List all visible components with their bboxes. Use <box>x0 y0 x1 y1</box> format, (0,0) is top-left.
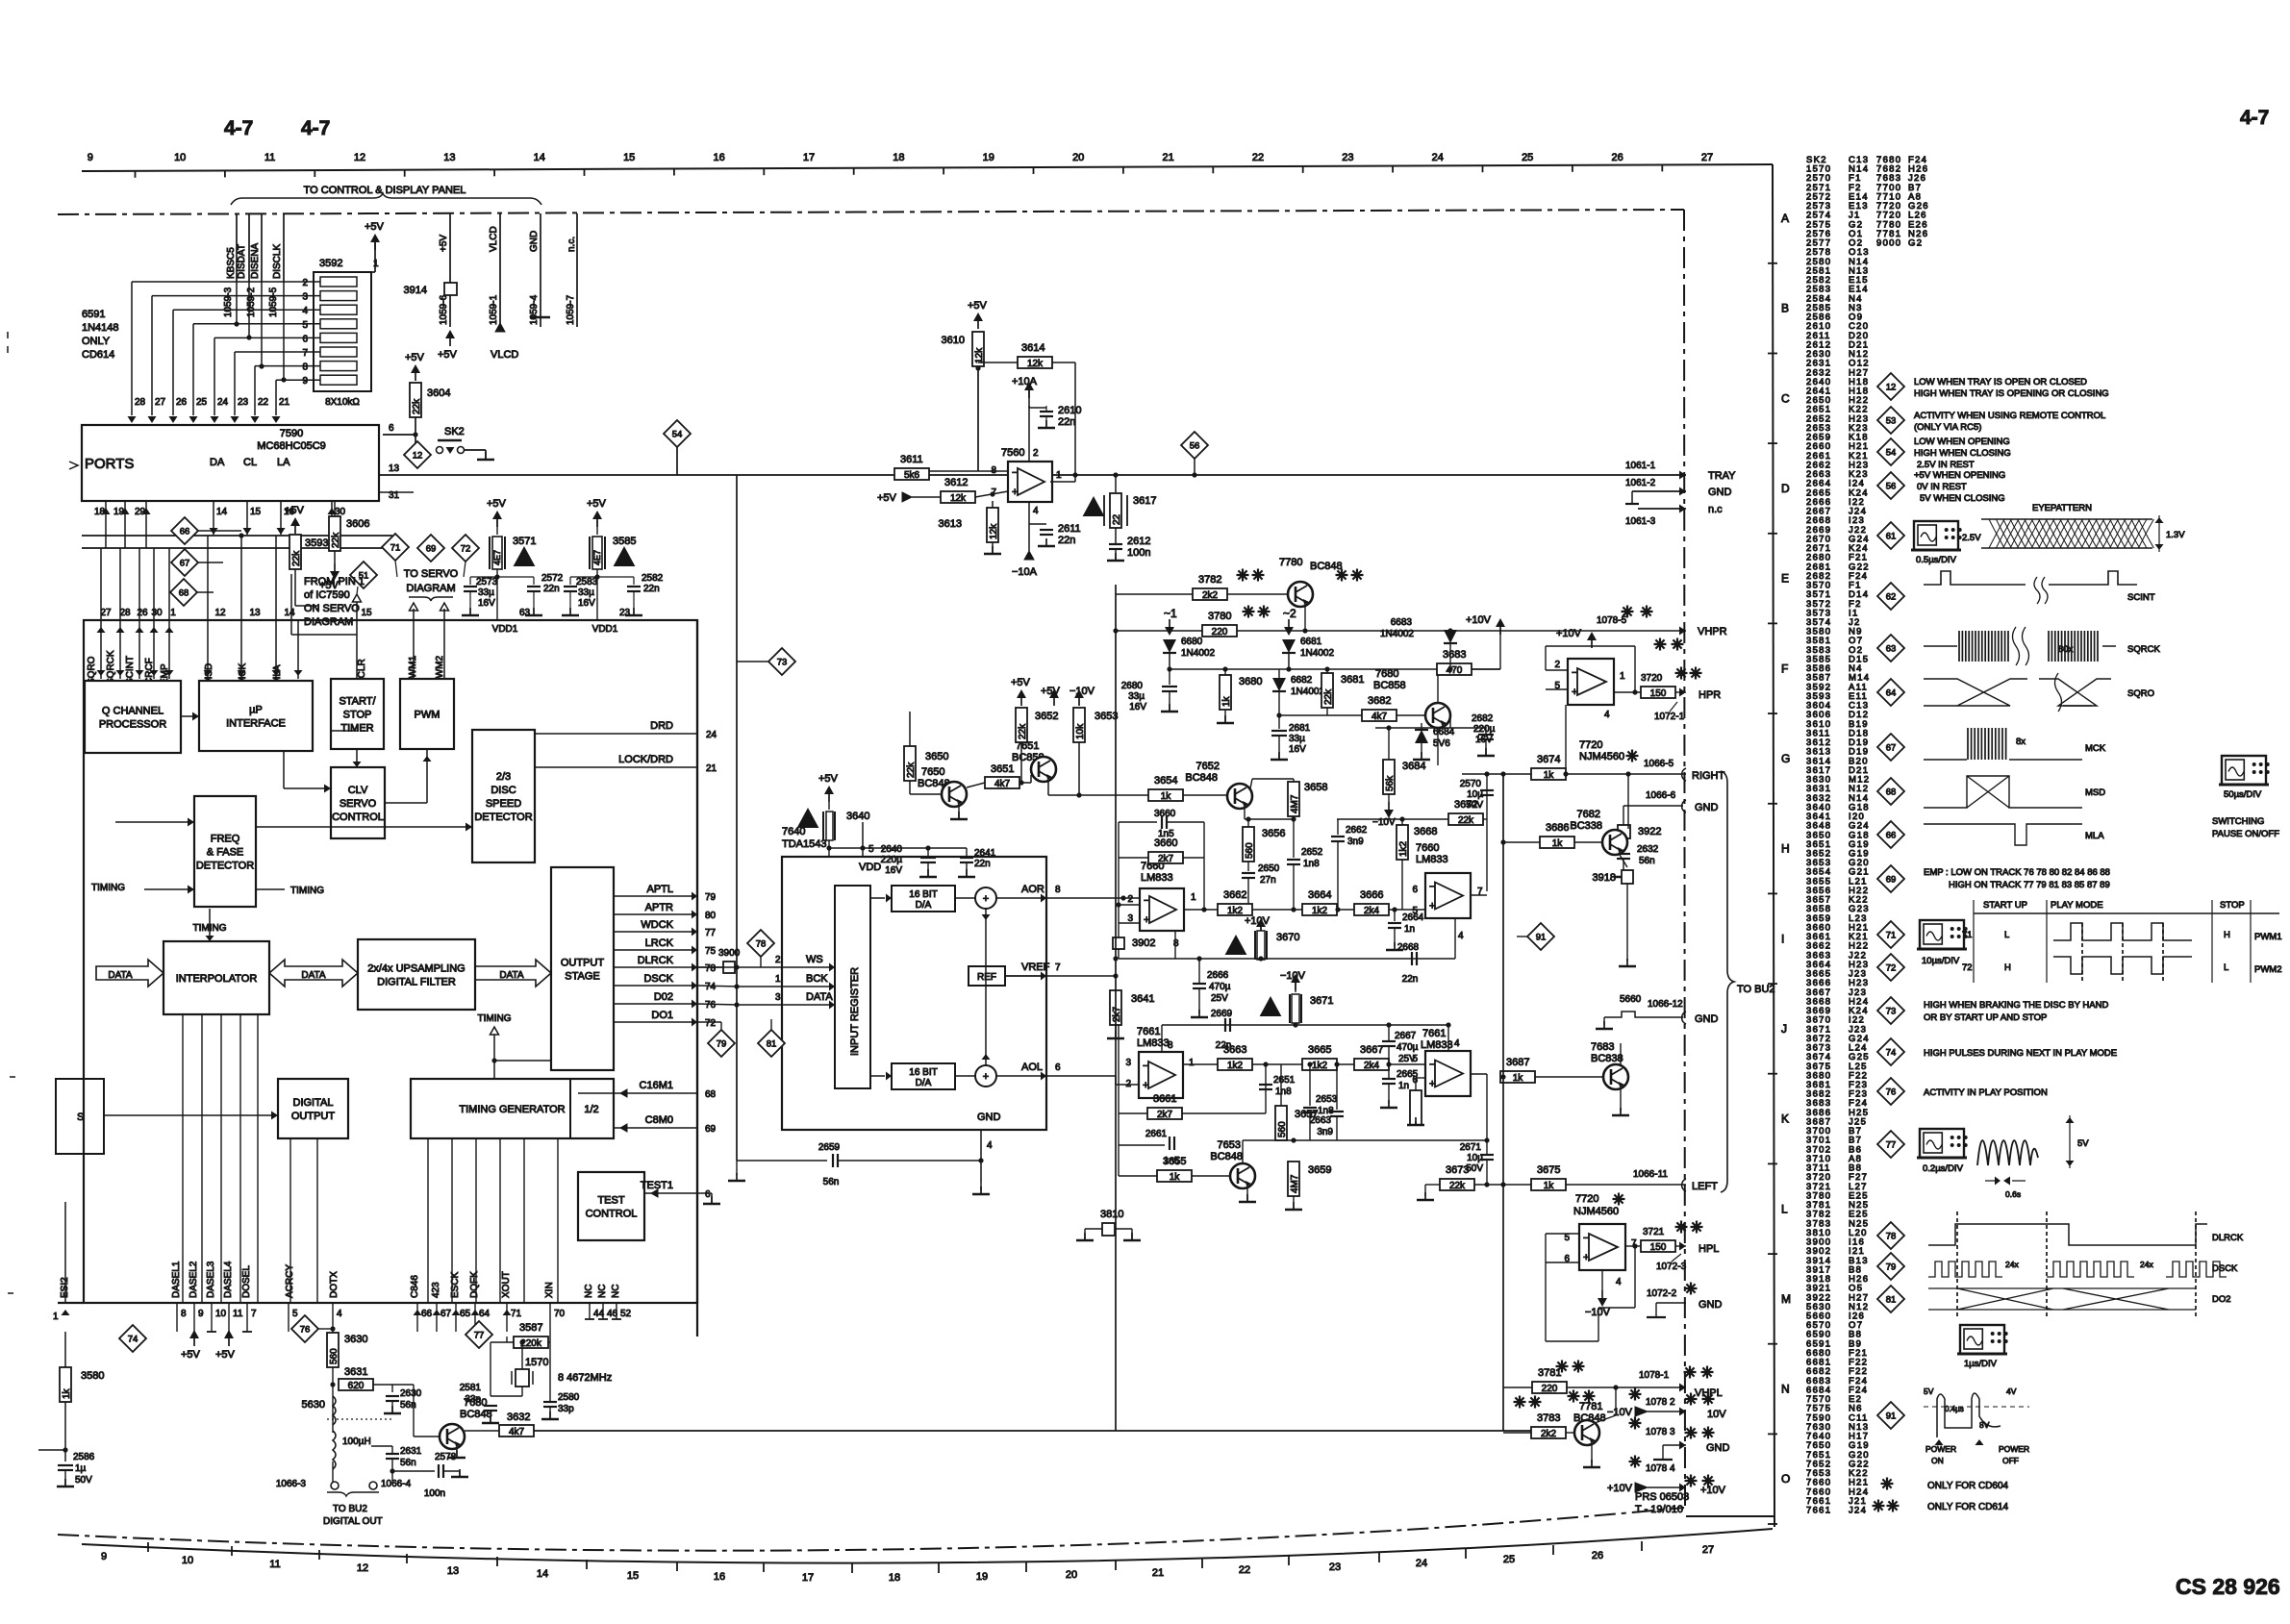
svg-text:19: 19 <box>113 507 125 517</box>
svg-text:+: + <box>1572 687 1577 698</box>
svg-text:+10V: +10V <box>1607 1483 1633 1494</box>
svg-text:28: 28 <box>135 397 146 408</box>
svg-text:CS 28 926: CS 28 926 <box>2176 1574 2280 1599</box>
svg-text:VLCD: VLCD <box>491 349 518 361</box>
svg-text:25: 25 <box>196 397 208 408</box>
svg-text:WS: WS <box>806 954 823 965</box>
svg-text:C8M0: C8M0 <box>645 1114 673 1126</box>
svg-text:7: 7 <box>302 348 308 359</box>
svg-text:25: 25 <box>1503 1554 1515 1565</box>
svg-text:19: 19 <box>976 1571 988 1583</box>
svg-text:10µs/DIV: 10µs/DIV <box>1922 956 1960 966</box>
svg-text:3662: 3662 <box>1223 889 1246 901</box>
svg-text:2: 2 <box>1033 448 1039 459</box>
svg-text:7720: 7720 <box>1579 739 1602 751</box>
svg-text:560: 560 <box>329 1348 340 1364</box>
svg-text:4k7: 4k7 <box>509 1427 525 1437</box>
svg-text:REF: REF <box>977 972 996 983</box>
svg-text:+5V: +5V <box>877 492 897 504</box>
svg-text:3612: 3612 <box>944 477 968 488</box>
svg-text:24: 24 <box>1432 152 1444 163</box>
svg-text:TO CONTROL & DISPLAY PANEL: TO CONTROL & DISPLAY PANEL <box>304 185 466 196</box>
svg-text:22k: 22k <box>291 550 302 566</box>
svg-text:1059-3: 1059-3 <box>223 287 234 317</box>
svg-text:ACTIVITY IN PLAY POSITION: ACTIVITY IN PLAY POSITION <box>1924 1087 2048 1098</box>
svg-text:SCINT: SCINT <box>2127 592 2155 603</box>
svg-text:22n: 22n <box>1058 416 1075 428</box>
svg-text:GND: GND <box>529 231 540 252</box>
svg-text:DIGITAL FILTER: DIGITAL FILTER <box>377 977 456 988</box>
svg-text:1066-5: 1066-5 <box>1644 759 1674 769</box>
svg-text:GND: GND <box>1706 1442 1730 1454</box>
svg-text:+: + <box>1012 487 1018 498</box>
svg-text:10k: 10k <box>1075 723 1086 739</box>
svg-text:DA: DA <box>210 457 225 468</box>
svg-text:2652: 2652 <box>1301 847 1323 858</box>
svg-text:PROCESSOR: PROCESSOR <box>99 719 166 731</box>
svg-text:I: I <box>1781 932 1784 945</box>
svg-text:MLA: MLA <box>2085 831 2104 841</box>
svg-text:56n: 56n <box>400 1458 416 1468</box>
svg-text:PRS 06503: PRS 06503 <box>1635 1491 1689 1503</box>
svg-text:OR BY START UP AND STOP: OR BY START UP AND STOP <box>1924 1012 2047 1023</box>
svg-text:D: D <box>1781 482 1790 495</box>
svg-text:16V: 16V <box>1289 744 1306 755</box>
svg-text:3661: 3661 <box>1153 1093 1176 1105</box>
svg-text:27: 27 <box>1702 1544 1714 1556</box>
svg-text:23: 23 <box>1329 1562 1341 1573</box>
svg-text:62: 62 <box>1886 592 1897 603</box>
svg-text:71: 71 <box>1962 930 1973 940</box>
svg-text:81: 81 <box>1886 1295 1897 1306</box>
svg-text:HIGH WHEN BRAKING THE DISC BY: HIGH WHEN BRAKING THE DISC BY HAND <box>1924 1000 2108 1011</box>
svg-text:66: 66 <box>180 527 190 537</box>
svg-text:3681: 3681 <box>1341 674 1364 686</box>
svg-text:9: 9 <box>198 1309 204 1319</box>
svg-text:1N4002: 1N4002 <box>1181 648 1215 659</box>
svg-text:2580: 2580 <box>558 1392 580 1403</box>
svg-text:DATA: DATA <box>499 970 524 981</box>
svg-text:22k: 22k <box>1323 688 1334 705</box>
svg-text:2653: 2653 <box>1316 1094 1338 1105</box>
svg-text:LEFT: LEFT <box>1692 1181 1718 1192</box>
svg-text:12: 12 <box>354 152 365 163</box>
svg-text:+5V: +5V <box>818 773 839 785</box>
svg-text:MSD: MSD <box>2085 787 2105 798</box>
svg-text:1072-3: 1072-3 <box>1656 1262 1687 1272</box>
svg-text:1066-6: 1066-6 <box>1646 790 1676 801</box>
svg-text:+10V: +10V <box>1466 614 1492 626</box>
svg-text:79: 79 <box>705 892 717 903</box>
svg-text:LM833: LM833 <box>1137 1037 1170 1049</box>
svg-text:7683: 7683 <box>1591 1041 1614 1053</box>
svg-text:2662: 2662 <box>1346 825 1368 836</box>
svg-text:1066-11: 1066-11 <box>1633 1169 1668 1180</box>
svg-text:71: 71 <box>511 1309 522 1319</box>
svg-text:22k: 22k <box>906 762 917 778</box>
svg-text:2x/4x UPSAMPLING: 2x/4x UPSAMPLING <box>367 963 465 975</box>
svg-text:!: ! <box>622 553 626 567</box>
svg-text:!: ! <box>1092 503 1095 517</box>
svg-text:15: 15 <box>623 152 635 163</box>
svg-text:1078-5: 1078-5 <box>1597 615 1627 626</box>
svg-text:2666: 2666 <box>1207 970 1229 981</box>
svg-text:150: 150 <box>1650 1242 1667 1253</box>
svg-text:22: 22 <box>1239 1564 1250 1576</box>
svg-text:TDA1543: TDA1543 <box>782 838 826 850</box>
svg-text:52: 52 <box>620 1309 632 1319</box>
svg-text:28: 28 <box>119 608 131 618</box>
svg-text:10V: 10V <box>1707 1409 1726 1420</box>
svg-text:2630: 2630 <box>400 1388 422 1399</box>
svg-text:2671: 2671 <box>1460 1142 1482 1153</box>
svg-text:+5V: +5V <box>968 300 988 312</box>
svg-text:220µ: 220µ <box>881 855 903 865</box>
svg-text:3641: 3641 <box>1131 993 1154 1005</box>
svg-text:1066-4: 1066-4 <box>381 1479 412 1489</box>
svg-text:TIMING: TIMING <box>290 886 324 896</box>
svg-text:16V: 16V <box>885 865 902 876</box>
svg-text:CONTROL: CONTROL <box>332 812 384 823</box>
svg-text:3652: 3652 <box>1035 711 1058 722</box>
svg-text:1n8: 1n8 <box>1303 859 1320 869</box>
svg-text:2659: 2659 <box>818 1142 841 1153</box>
svg-text:3592: 3592 <box>319 258 342 269</box>
svg-text:66: 66 <box>421 1309 433 1319</box>
svg-text:1061-3: 1061-3 <box>1625 516 1656 527</box>
svg-text:5: 5 <box>302 320 308 331</box>
svg-text:MC68HC05C9: MC68HC05C9 <box>257 440 326 452</box>
svg-text:GND: GND <box>1695 802 1719 813</box>
svg-text:H: H <box>2224 930 2230 940</box>
svg-text:73: 73 <box>777 658 788 668</box>
svg-text:3656: 3656 <box>1262 828 1285 839</box>
svg-text:(ONLY VIA RC5): (ONLY VIA RC5) <box>1914 422 1981 433</box>
svg-text:65: 65 <box>460 1309 471 1319</box>
svg-text:68: 68 <box>179 588 189 599</box>
svg-text:3: 3 <box>302 292 308 303</box>
svg-text:1k2: 1k2 <box>1312 906 1328 916</box>
svg-text:3640: 3640 <box>846 811 869 822</box>
svg-text:2586: 2586 <box>73 1452 95 1462</box>
svg-text:1N4148: 1N4148 <box>82 322 119 334</box>
svg-text:61: 61 <box>1886 532 1897 542</box>
svg-text:1: 1 <box>1620 671 1625 682</box>
svg-text:3721: 3721 <box>1643 1227 1665 1237</box>
svg-text:6: 6 <box>302 334 308 344</box>
svg-text:6: 6 <box>1412 885 1418 895</box>
svg-text:SQRCK: SQRCK <box>106 650 116 685</box>
svg-text:POWER: POWER <box>1999 1444 2029 1454</box>
svg-text:33µ: 33µ <box>578 587 594 598</box>
svg-text:!: ! <box>1234 941 1238 956</box>
svg-text:D/A: D/A <box>916 1078 932 1088</box>
svg-text:3720: 3720 <box>1641 673 1663 684</box>
svg-text:+5V: +5V <box>319 580 340 591</box>
svg-text:POWER: POWER <box>1925 1444 1956 1454</box>
svg-text:26: 26 <box>1592 1550 1603 1562</box>
svg-text:3659: 3659 <box>1308 1164 1331 1176</box>
svg-text:START UP: START UP <box>1983 900 2027 911</box>
svg-text:7661: 7661 <box>1422 1028 1446 1039</box>
svg-text:20: 20 <box>1072 152 1084 163</box>
svg-text:1k2: 1k2 <box>1312 1061 1328 1071</box>
svg-text:LA: LA <box>277 457 290 468</box>
svg-text:4-7: 4-7 <box>301 117 330 139</box>
svg-text:78: 78 <box>1886 1232 1897 1242</box>
svg-text:D/A: D/A <box>916 900 932 911</box>
svg-text:1059-5: 1059-5 <box>268 287 279 317</box>
svg-text:+5V: +5V <box>181 1349 201 1361</box>
svg-text:PWM2: PWM2 <box>2254 964 2282 975</box>
svg-text:1n: 1n <box>1404 924 1415 935</box>
svg-text:17: 17 <box>802 1572 814 1584</box>
svg-text:2641: 2641 <box>974 848 996 859</box>
svg-text:VHPR: VHPR <box>1698 626 1727 637</box>
svg-text:2573: 2573 <box>476 577 498 587</box>
svg-text:3631: 3631 <box>344 1366 367 1378</box>
svg-text:G2: G2 <box>1908 238 1923 249</box>
svg-text:XIN: XIN <box>544 1282 555 1298</box>
svg-text:DIAGRAM: DIAGRAM <box>304 616 353 628</box>
svg-text:2k7: 2k7 <box>1112 1006 1122 1022</box>
svg-text:3922: 3922 <box>1638 826 1661 837</box>
svg-text:21: 21 <box>706 763 717 774</box>
svg-text:EMP : LOW ON TRACK 76 78 80 82: EMP : LOW ON TRACK 76 78 80 82 84 86 88 <box>1924 867 2110 878</box>
svg-text:10: 10 <box>215 1309 227 1319</box>
svg-text:3613: 3613 <box>939 518 962 530</box>
svg-text:3686: 3686 <box>1546 822 1569 834</box>
svg-text:4: 4 <box>1454 1038 1460 1049</box>
svg-text:68: 68 <box>1886 787 1897 798</box>
svg-text:27n: 27n <box>1260 875 1276 886</box>
svg-text:80x: 80x <box>2058 644 2074 655</box>
svg-text:150: 150 <box>1650 688 1667 699</box>
svg-text:ON SERVO: ON SERVO <box>304 603 360 614</box>
svg-text:3900: 3900 <box>718 948 741 959</box>
svg-text:VDD1: VDD1 <box>492 624 518 635</box>
svg-text:71: 71 <box>1886 931 1897 941</box>
svg-text:56: 56 <box>1190 441 1200 452</box>
svg-text:SWITCHING: SWITCHING <box>2212 816 2264 827</box>
svg-text:ONLY: ONLY <box>82 336 111 347</box>
svg-text:DOSEL: DOSEL <box>241 1265 252 1298</box>
svg-text:H: H <box>1781 842 1790 856</box>
svg-text:18: 18 <box>94 507 106 517</box>
svg-text:2610: 2610 <box>1058 405 1081 416</box>
svg-text:22k: 22k <box>1449 1181 1466 1191</box>
svg-text:+10V: +10V <box>1700 1485 1726 1496</box>
svg-text:N: N <box>1781 1383 1790 1396</box>
svg-text:13: 13 <box>447 1565 459 1577</box>
svg-text:14: 14 <box>537 1568 548 1580</box>
svg-text:1061-2: 1061-2 <box>1625 478 1656 488</box>
svg-text:1n: 1n <box>1398 1081 1409 1091</box>
svg-text:NJM4560: NJM4560 <box>1573 1206 1619 1217</box>
svg-text:22k: 22k <box>331 532 341 548</box>
svg-text:APTL: APTL <box>646 884 673 895</box>
svg-text:3914: 3914 <box>404 285 427 296</box>
svg-text:7590: 7590 <box>280 428 303 439</box>
svg-text:−: − <box>1012 467 1018 479</box>
svg-text:4k7: 4k7 <box>994 779 1011 789</box>
svg-text:16V: 16V <box>1129 702 1146 712</box>
svg-text:12k: 12k <box>1027 359 1044 369</box>
svg-text:100n: 100n <box>424 1488 445 1499</box>
svg-text:72: 72 <box>705 1018 717 1029</box>
svg-text:DRD: DRD <box>650 720 673 732</box>
svg-text:26: 26 <box>176 397 188 408</box>
svg-text:53: 53 <box>1886 416 1897 427</box>
svg-text:4: 4 <box>987 1140 993 1151</box>
svg-text:25V: 25V <box>1398 1054 1416 1064</box>
svg-text:LM833: LM833 <box>1141 872 1173 884</box>
svg-text:3682: 3682 <box>1368 695 1391 707</box>
svg-text:µP: µP <box>249 705 263 716</box>
svg-text:1: 1 <box>1189 1058 1195 1068</box>
svg-text:3782: 3782 <box>1198 574 1221 586</box>
svg-text:50V: 50V <box>75 1475 92 1486</box>
svg-text:−: − <box>1572 667 1577 679</box>
svg-text:2k2: 2k2 <box>1202 590 1219 601</box>
svg-text:S: S <box>77 1112 84 1123</box>
svg-text:27: 27 <box>100 608 112 618</box>
svg-text:GND: GND <box>977 1112 1001 1123</box>
svg-text:77: 77 <box>474 1331 485 1341</box>
svg-text:DO2: DO2 <box>2212 1294 2231 1305</box>
svg-text:LOCK/DRD: LOCK/DRD <box>618 754 673 765</box>
svg-text:1k: 1k <box>1544 1181 1555 1191</box>
svg-text:!: ! <box>806 814 810 829</box>
svg-text:3664: 3664 <box>1308 889 1331 901</box>
svg-text:OFF: OFF <box>2002 1456 2019 1465</box>
svg-text:6: 6 <box>705 1189 711 1200</box>
svg-text:+: + <box>1429 901 1435 912</box>
svg-text:12k: 12k <box>950 493 967 504</box>
svg-text:1n8: 1n8 <box>1275 1087 1292 1097</box>
svg-text:VREF: VREF <box>1021 962 1050 973</box>
svg-text:−: − <box>1143 1061 1148 1072</box>
svg-text:4: 4 <box>1458 931 1464 941</box>
svg-text:LOW WHEN OPENING: LOW WHEN OPENING <box>1914 437 2010 447</box>
svg-text:J: J <box>1781 1022 1787 1036</box>
svg-text:WDCK: WDCK <box>641 919 673 931</box>
svg-text:+: + <box>1429 1079 1435 1090</box>
svg-text:19: 19 <box>983 152 994 163</box>
svg-text:16: 16 <box>713 152 724 163</box>
svg-text:5: 5 <box>292 1309 298 1319</box>
svg-text:2612: 2612 <box>1127 536 1150 547</box>
svg-text:−10V: −10V <box>1372 817 1396 828</box>
svg-text:AOR: AOR <box>1021 884 1044 895</box>
svg-text:3687: 3687 <box>1506 1057 1529 1068</box>
svg-text:63: 63 <box>519 608 531 618</box>
svg-text:33µ: 33µ <box>1128 691 1145 702</box>
svg-text:3606: 3606 <box>346 518 369 530</box>
svg-text:Q CHANNEL: Q CHANNEL <box>102 706 164 717</box>
svg-text:~1: ~1 <box>1164 607 1177 620</box>
svg-text:ACTIVITY WHEN USING REMOTE CON: ACTIVITY WHEN USING REMOTE CONTROL <box>1914 411 2105 421</box>
svg-text:3: 3 <box>1125 1058 1131 1068</box>
svg-text:2: 2 <box>1125 1079 1131 1089</box>
svg-text:76: 76 <box>705 1000 717 1011</box>
svg-text:2570: 2570 <box>1460 779 1482 789</box>
svg-text:PORTS: PORTS <box>85 456 134 472</box>
svg-text:1: 1 <box>170 608 176 618</box>
svg-text:6: 6 <box>1055 1062 1061 1073</box>
svg-text:TIMER: TIMER <box>340 723 373 735</box>
svg-text:+: + <box>983 893 989 905</box>
svg-text:+10V: +10V <box>1245 915 1271 927</box>
svg-text:3653: 3653 <box>1095 711 1118 722</box>
svg-text:23: 23 <box>619 608 631 618</box>
svg-text:2583: 2583 <box>576 577 598 587</box>
svg-text:33p: 33p <box>558 1404 574 1414</box>
svg-text:DETECTOR: DETECTOR <box>474 812 532 823</box>
svg-text:12: 12 <box>1886 383 1897 393</box>
svg-text:7650: 7650 <box>921 766 944 778</box>
svg-text:+5V WHEN OPENING: +5V WHEN OPENING <box>1914 470 2005 481</box>
svg-text:7560: 7560 <box>1001 447 1024 459</box>
svg-text:3668: 3668 <box>1414 826 1437 837</box>
svg-text:15: 15 <box>361 608 372 618</box>
svg-text:3655: 3655 <box>1163 1156 1186 1167</box>
svg-text:23: 23 <box>1342 152 1353 163</box>
svg-text:8 4672MHz: 8 4672MHz <box>558 1372 612 1384</box>
svg-text:3673: 3673 <box>1446 1164 1469 1176</box>
svg-text:T - 19/010: T - 19/010 <box>1635 1504 1683 1515</box>
svg-text:21: 21 <box>279 397 290 408</box>
svg-text:33µ: 33µ <box>478 587 494 598</box>
svg-text:DATA: DATA <box>108 970 133 981</box>
svg-text:−: − <box>1583 1233 1589 1244</box>
svg-text:2611: 2611 <box>1058 523 1081 535</box>
svg-text:4k7: 4k7 <box>1371 712 1388 722</box>
svg-text:24: 24 <box>217 397 229 408</box>
svg-text:3902: 3902 <box>1132 937 1155 949</box>
svg-text:INPUT REGISTER: INPUT REGISTER <box>849 967 861 1056</box>
svg-text:6683: 6683 <box>1391 617 1413 628</box>
svg-text:3611: 3611 <box>900 454 923 465</box>
svg-text:8x: 8x <box>2016 737 2026 747</box>
svg-text:3614: 3614 <box>1021 342 1044 354</box>
svg-text:1: 1 <box>373 259 379 269</box>
svg-text:14: 14 <box>284 608 295 618</box>
svg-text:7780: 7780 <box>1279 557 1302 568</box>
svg-text:NC: NC <box>597 1285 608 1298</box>
svg-text:66: 66 <box>1886 831 1897 841</box>
svg-text:3650: 3650 <box>925 751 948 762</box>
svg-text:+5V: +5V <box>439 235 449 252</box>
svg-text:8: 8 <box>1055 885 1061 895</box>
svg-text:D02: D02 <box>654 991 673 1003</box>
svg-text:INTERPOLATOR: INTERPOLATOR <box>176 973 258 985</box>
svg-text:+5V: +5V <box>405 352 425 363</box>
svg-text:ONLY FOR CD614: ONLY FOR CD614 <box>1927 1502 2009 1512</box>
svg-text:2682: 2682 <box>1472 713 1494 724</box>
svg-text:3587: 3587 <box>519 1322 542 1334</box>
svg-text:STOP: STOP <box>2220 900 2245 911</box>
svg-text:TIMING: TIMING <box>91 883 125 893</box>
svg-text:29: 29 <box>135 507 146 517</box>
svg-text:1078 3: 1078 3 <box>1646 1427 1675 1437</box>
svg-text:SK2: SK2 <box>444 426 465 437</box>
svg-text:GND: GND <box>1708 487 1732 498</box>
svg-text:91: 91 <box>1536 933 1547 943</box>
svg-text:3630: 3630 <box>344 1334 367 1345</box>
svg-text:74: 74 <box>1886 1048 1897 1059</box>
svg-text:3670: 3670 <box>1276 932 1299 943</box>
